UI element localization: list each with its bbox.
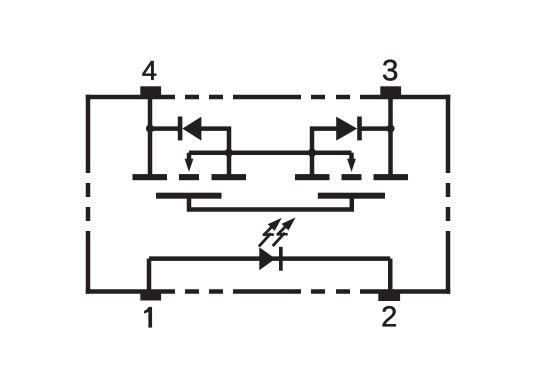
pin 2 pad (378, 290, 400, 301)
package outline bottom edge (86, 289, 451, 294)
wire LED left riser (147, 259, 152, 292)
wire gate loop (189, 197, 352, 210)
MOSFET Q2 source bar (295, 174, 330, 180)
junction dot pin3/diode (386, 125, 394, 133)
light arrow right (273, 217, 296, 246)
LED triangle (259, 247, 275, 270)
left body arrow head (185, 159, 194, 172)
LED cathode bar (279, 247, 283, 271)
MOSFET Q2 body bar (342, 174, 362, 180)
MOSFET Q1 gate bar (156, 193, 222, 199)
package outline top edge (86, 95, 451, 100)
wire left body arrow shaft (187, 153, 192, 160)
junction dot left source (225, 149, 233, 157)
package outline right edge (446, 95, 451, 294)
wire pin3 drop (388, 95, 393, 175)
pin 4 pad (140, 86, 161, 99)
junction dot pin4/diode (146, 125, 154, 133)
wire left diode anode side (150, 126, 179, 131)
pin label 3 (383, 60, 397, 81)
wire source interconnect line (189, 150, 352, 155)
wire left diode to source riser (201, 129, 232, 175)
wire right body arrow shaft (349, 153, 354, 160)
junction dot right source (308, 149, 316, 157)
MOSFET Q1 drain bar (133, 174, 168, 180)
diode D1 cathode bar (left MOSFET body diode) (178, 117, 183, 141)
wire right diode cathode to pin3 (361, 126, 391, 131)
MOSFET Q1 source bar (212, 174, 247, 180)
diode D2 triangle (right MOSFET body diode) (336, 117, 357, 141)
diode D2 cathode bar (357, 117, 362, 141)
package outline left edge (86, 95, 91, 294)
wire LED right riser (388, 259, 393, 292)
pin 1 pad (140, 290, 161, 301)
wire LED horizontal (149, 256, 390, 261)
pin 3 pad (380, 86, 401, 99)
light arrow left (259, 218, 282, 247)
wire pin4 drop (148, 95, 153, 175)
pin label 4 (142, 61, 156, 80)
wire right source riser (310, 129, 337, 175)
pin label 2 (383, 306, 396, 326)
MOSFET Q1 body bar (179, 174, 199, 180)
right body arrow head (347, 159, 356, 172)
MOSFET Q2 gate bar (318, 193, 385, 199)
pin label 1 (144, 307, 151, 327)
MOSFET Q2 drain bar (374, 174, 409, 180)
diode D1 triangle (182, 117, 201, 141)
